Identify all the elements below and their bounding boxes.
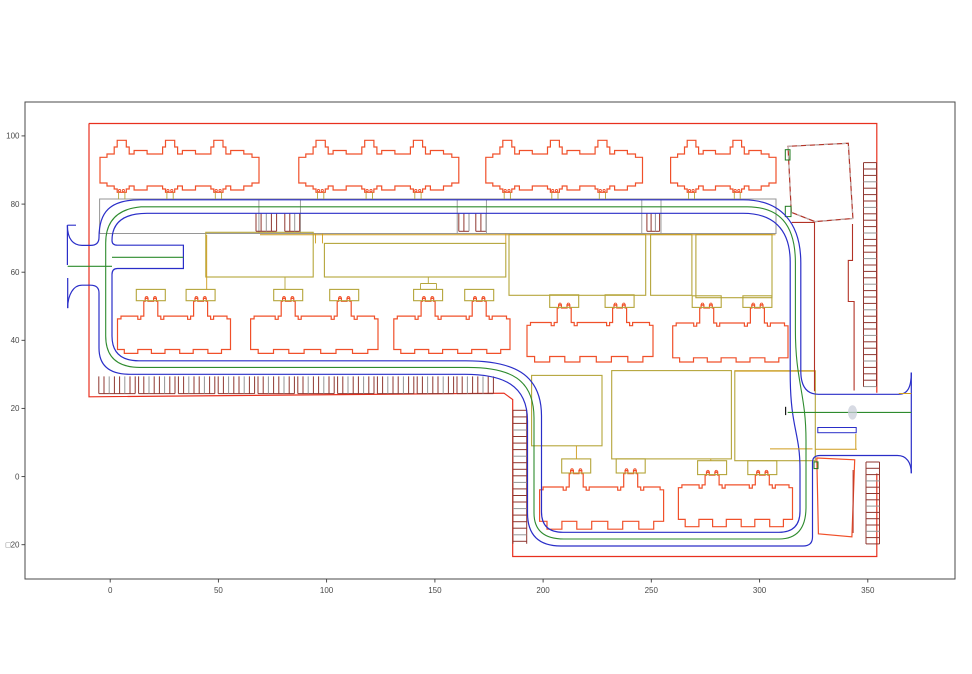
garage rect R4: [651, 235, 692, 296]
gold line right flare n: [899, 393, 912, 395]
svg-text:60: 60: [11, 268, 20, 277]
garage strip divider: [641, 199, 643, 234]
left entrance cap tick: [67, 224, 76, 226]
svg-text:80: 80: [11, 200, 20, 209]
building N1: [540, 459, 664, 529]
building TR green box 2: [785, 206, 791, 216]
site boundary lower right: [89, 124, 877, 557]
parking hatch mid vertical: [513, 410, 527, 544]
svg-text:300: 300: [753, 586, 767, 595]
garage rect R7: [612, 371, 732, 459]
garage rect R3: [509, 235, 646, 296]
building M2: [251, 289, 378, 353]
right entrance green: [788, 411, 912, 413]
building M5: [673, 296, 788, 362]
garage strip divider: [456, 199, 458, 234]
left stub green: [112, 256, 183, 258]
building T2: [299, 140, 459, 199]
black segment: [785, 407, 787, 415]
right entrance cap: [910, 373, 912, 474]
connector c4: [421, 277, 437, 289]
garage rect R5: [696, 235, 772, 298]
svg-text:250: 250: [645, 586, 659, 595]
building T4: [671, 140, 776, 199]
garage rect R6: [532, 375, 602, 445]
svg-text:20: 20: [11, 404, 20, 413]
site boundary upper: [89, 124, 877, 393]
building T1: [100, 140, 259, 199]
road south blue edge: [68, 285, 912, 546]
road outer blue edge: [67, 200, 911, 394]
garage rect R2: [324, 243, 505, 277]
connector c1: [206, 235, 208, 289]
building M1: [118, 289, 231, 353]
dark red line b: [848, 224, 854, 391]
garage strip divider: [299, 199, 301, 234]
building T3: [486, 140, 643, 199]
gray blob: [848, 405, 857, 419]
svg-text:0: 0: [15, 472, 20, 481]
parking hatch group top strip: [476, 214, 486, 232]
connector c11: [505, 234, 507, 244]
building N2: [678, 461, 792, 527]
garage rect R8 top: [735, 370, 816, 372]
garage strip outline: [100, 199, 776, 234]
building OB: [817, 458, 855, 537]
parking hatch bottom strip: [99, 376, 494, 393]
connector c5: [560, 294, 562, 297]
connector c9: [759, 460, 761, 462]
building M4: [527, 295, 653, 362]
garage strip divider: [660, 199, 662, 234]
D green rect: [814, 462, 818, 469]
svg-text:150: 150: [428, 586, 442, 595]
median island yellow stub: [855, 434, 857, 450]
road inner blue edge: [112, 213, 800, 532]
median island yellow line: [815, 448, 857, 450]
dark red line a: [792, 222, 815, 391]
dark red stub: [852, 470, 854, 533]
parking hatch right lower: [866, 462, 880, 544]
left entrance cap: [66, 225, 68, 308]
connector c10: [284, 277, 286, 289]
axis ticks and labels: [6, 132, 875, 595]
garage strip divider: [258, 199, 260, 234]
garage rect R8: [735, 371, 816, 461]
building TR dash overlay: [788, 143, 853, 221]
connector c3: [322, 234, 324, 244]
parking hatch group top strip: [256, 214, 277, 232]
left entrance green: [68, 265, 112, 267]
building TR green box 1: [785, 150, 790, 160]
svg-text:100: 100: [6, 132, 20, 141]
svg-text:200: 200: [536, 586, 550, 595]
parking hatch right upper: [864, 163, 877, 387]
svg-text:40: 40: [11, 336, 20, 345]
svg-text:0: 0: [108, 586, 113, 595]
connector c8: [710, 459, 712, 461]
gold line to road: [770, 448, 813, 450]
svg-text:50: 50: [214, 586, 223, 595]
garage rect R1: [206, 232, 313, 277]
building M3: [394, 289, 510, 353]
connector c7: [624, 458, 626, 460]
connector c2: [315, 234, 317, 244]
svg-text:□20: □20: [6, 541, 20, 550]
building TR: [788, 143, 853, 221]
garage strip divider: [485, 199, 487, 234]
parking hatch group top strip: [459, 214, 469, 232]
parking hatch group top strip: [285, 214, 300, 232]
axes frame: [25, 102, 955, 579]
svg-text:100: 100: [320, 586, 334, 595]
road green loop: [106, 207, 806, 539]
garage connector line: [260, 234, 776, 236]
median island: [818, 428, 856, 433]
svg-text:350: 350: [861, 586, 875, 595]
connector c6: [575, 446, 577, 459]
parking hatch group top strip: [647, 214, 660, 232]
